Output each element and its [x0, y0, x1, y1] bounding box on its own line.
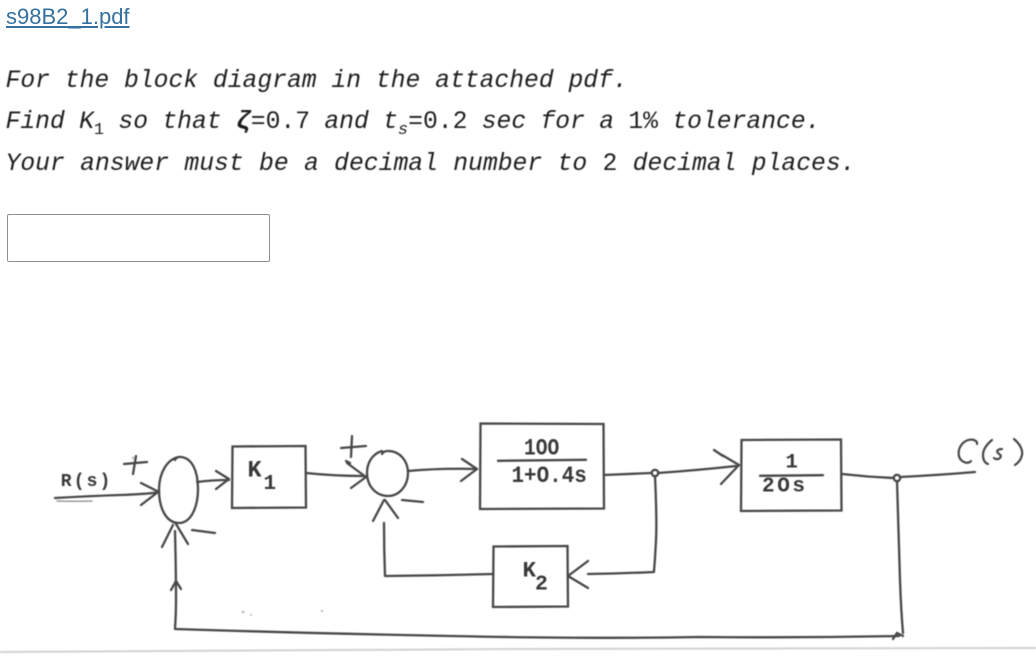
svg-text:1+O.4s: 1+O.4s [512, 463, 587, 489]
svg-text:1: 1 [786, 452, 798, 475]
svg-text:2: 2 [535, 573, 548, 597]
svg-text:R(s): R(s) [61, 472, 113, 492]
svg-text:1OO: 1OO [524, 436, 559, 462]
svg-text:1: 1 [264, 473, 277, 496]
svg-text:K: K [248, 458, 263, 485]
svg-text:2Os: 2Os [762, 476, 808, 499]
